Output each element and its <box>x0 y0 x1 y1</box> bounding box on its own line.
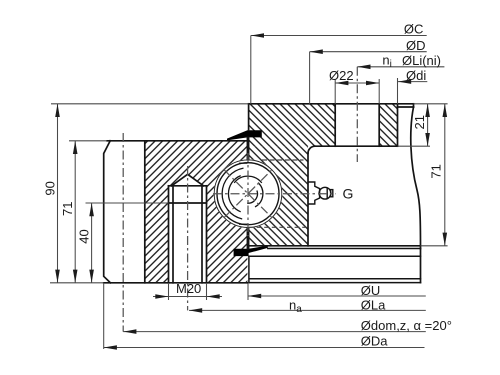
bolt hole O22 left edge <box>334 104 336 146</box>
outer raceway shoulder bottom <box>239 223 247 225</box>
band line 2 <box>249 255 421 257</box>
raceway circle <box>214 160 282 228</box>
band line 4 <box>250 282 421 284</box>
M20 axis <box>187 166 189 310</box>
svg-text:ØU: ØU <box>361 283 381 298</box>
contours <box>104 104 421 283</box>
M20 cone <box>172 174 204 186</box>
band line 1 <box>268 248 421 250</box>
dim line ODa <box>104 347 425 349</box>
svg-text:ØDa: ØDa <box>361 334 389 349</box>
dim line OLa <box>189 309 426 311</box>
grease nipple G <box>308 182 333 204</box>
dim line OU <box>248 295 426 297</box>
arrow OD <box>310 49 323 54</box>
ext line outer top left <box>69 140 107 142</box>
bore notch vertical <box>413 104 415 107</box>
svg-text:ØD: ØD <box>406 38 426 53</box>
raceway groove hidden line upper <box>262 159 304 161</box>
ball <box>217 163 279 225</box>
arrow 90 down <box>55 270 60 283</box>
seal top (black wedge) <box>227 130 262 140</box>
svg-text:71: 71 <box>60 202 75 216</box>
bore line di <box>397 104 399 146</box>
arrow 71L up <box>73 141 78 154</box>
band right edge <box>420 249 422 283</box>
raceway groove hidden line lower <box>249 226 306 228</box>
ball diagonal axis 2 <box>224 170 272 218</box>
svg-text:90: 90 <box>43 181 58 195</box>
dim line 90 <box>57 104 59 283</box>
bore notch ledge <box>398 106 414 108</box>
dim line Odom <box>123 331 426 333</box>
arrow 71R down <box>443 233 448 246</box>
svg-text:ØLi(ni): ØLi(ni) <box>402 53 441 68</box>
inner ring left face below seal <box>248 137 250 159</box>
ball diagonal axis 1 <box>224 170 272 218</box>
arrow 40 up <box>89 203 94 216</box>
band line 3 <box>250 278 421 280</box>
M20 thread line right <box>206 186 208 283</box>
ext line ODa <box>103 283 105 349</box>
arrow 21 up <box>425 104 430 117</box>
outer ring right face upper <box>246 137 248 159</box>
gear strip outline <box>104 141 111 283</box>
white cutout bolt hole O22 <box>335 103 379 146</box>
svg-text:21: 21 <box>412 115 427 129</box>
O22 hole axis <box>356 67 358 162</box>
arrow O22 right <box>366 81 379 86</box>
dim line 40 <box>91 203 93 283</box>
M20 drill line right <box>201 186 203 283</box>
arrow M20 right <box>207 294 220 299</box>
ext line M20 right <box>206 284 208 300</box>
ext line OU <box>247 284 249 301</box>
dim line OLi <box>357 66 444 68</box>
ext line bottom left <box>50 282 104 284</box>
ext line 40 depth <box>86 202 169 204</box>
background silhouette band lines <box>249 249 421 283</box>
svg-text:71: 71 <box>428 164 443 178</box>
M20 thread depth line <box>169 202 207 204</box>
arrow Odi <box>398 79 411 84</box>
recess face <box>307 153 309 246</box>
ball horizontal / grease axis <box>213 193 336 195</box>
arrow O22 left <box>335 81 348 86</box>
M20 cone base line <box>169 185 207 187</box>
inner ring top face <box>249 103 414 105</box>
arrow OU <box>248 294 261 299</box>
outer ring bottom face <box>104 282 248 284</box>
ball vertical axis <box>247 153 249 236</box>
inner ring section hatch upper band <box>249 104 398 146</box>
ext line OC <box>250 36 252 104</box>
band left edge <box>248 256 250 282</box>
inner ring bottom face <box>249 245 421 247</box>
svg-text:Ødi: Ødi <box>406 68 426 83</box>
dim line Odi <box>398 81 427 83</box>
ext line O22 right <box>378 79 380 104</box>
M20 drill line left <box>172 186 174 283</box>
white cutout broken-out recess of inner ring <box>308 146 421 246</box>
white cutout M20 tapped hole <box>169 174 207 282</box>
dim line 21 <box>427 104 429 146</box>
ext line O22 left <box>334 79 336 104</box>
svg-text:M20: M20 <box>176 281 201 296</box>
svg-text:Ø22: Ø22 <box>329 68 354 83</box>
dim line M20 <box>153 296 222 298</box>
arrow Odom <box>123 329 136 334</box>
arrow OLa <box>189 308 202 313</box>
recess fillet <box>308 146 315 153</box>
ext line OD <box>309 52 311 104</box>
raceway arcs inside ball <box>222 168 263 219</box>
arrow OLi <box>357 65 370 70</box>
ext line M20 left <box>168 284 170 300</box>
gear root line <box>144 141 146 283</box>
svg-text:ØC: ØC <box>404 22 424 37</box>
svg-text:G: G <box>343 186 354 202</box>
outer ring right face lower <box>246 228 248 249</box>
dim line OC <box>251 35 427 37</box>
arrow 21 down <box>425 133 430 146</box>
M20 thread line left <box>168 186 170 283</box>
seal bottom (black wedge) <box>234 246 268 257</box>
ext line bottom right <box>421 245 448 247</box>
outer raceway shoulder top <box>239 162 247 164</box>
dimension lines <box>50 36 448 350</box>
outer ring top face <box>107 140 247 142</box>
ext line top face right <box>414 103 448 105</box>
white cutout ball raceway <box>214 159 283 228</box>
dim line 71 left <box>74 141 76 283</box>
dim line OD <box>310 51 427 53</box>
svg-text:Ødom,z, α =20°: Ødom,z, α =20° <box>361 318 452 333</box>
inner ring left face upper <box>248 104 250 130</box>
arrow M20 left <box>155 294 168 299</box>
arrow OC <box>251 33 264 38</box>
arrow 40 down <box>89 270 94 283</box>
inner ring section hatch left column <box>249 146 308 246</box>
dim line O22 <box>335 82 379 84</box>
outer ring section hatch <box>145 141 248 283</box>
counterbore shelf line <box>315 145 398 147</box>
arrow 71R up <box>443 104 448 117</box>
break curve <box>411 107 421 249</box>
arrow ODa <box>104 345 117 350</box>
ext line Odi <box>397 78 399 104</box>
gear pitch line <box>122 133 124 332</box>
svg-text:40: 40 <box>77 229 92 243</box>
arrow 71L down <box>73 270 78 283</box>
center lines dash-dot <box>123 67 357 332</box>
ext line top face left <box>51 103 249 105</box>
arrow 90 up <box>55 104 60 117</box>
inner ring left face lower <box>248 228 250 249</box>
dim line 71 right <box>444 104 446 246</box>
bolt hole O22 right edge <box>378 104 380 146</box>
ext line 21 bottom <box>398 145 431 147</box>
arrowheads <box>55 33 447 350</box>
svg-text:ØLa: ØLa <box>361 297 386 312</box>
